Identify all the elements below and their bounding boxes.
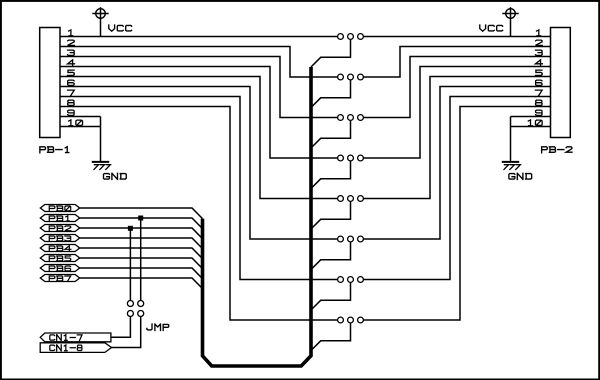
wire PB-2 pins 9-10 ground drop xyxy=(510,117,512,162)
PB-2 pin 1 number xyxy=(537,30,541,36)
wire PB-1 pin 9 xyxy=(60,116,101,118)
jumper J3 pin A xyxy=(338,115,344,121)
power symbol VCC left xyxy=(96,9,106,19)
jumper J1 pin common xyxy=(348,34,354,40)
PB-2 pin 10 number xyxy=(528,120,542,126)
jumper J2 pin A xyxy=(338,74,344,80)
jumper JMP pin 4 xyxy=(138,311,144,317)
wire jumper J7 common to bus xyxy=(311,283,351,310)
wire PB-1 pin 5 to jumper J5 pin A xyxy=(60,77,337,199)
jumper J6 pin A xyxy=(338,236,344,242)
wire PB-2 pin 2 to jumper J2 pin B xyxy=(364,47,551,78)
PB-1 pin 5 number xyxy=(68,70,75,75)
connector PB-1 body xyxy=(40,28,60,138)
net label PB7 text xyxy=(49,276,70,281)
PB-2 pin 3 number xyxy=(535,50,542,55)
power symbol VCC right xyxy=(506,9,516,19)
wire PB-2 pin 4 to jumper J4 pin B xyxy=(364,67,551,159)
net label PB6 flag xyxy=(40,265,79,272)
jumper JMP pin 2 xyxy=(138,301,144,307)
wire PB3 to bus xyxy=(80,238,203,249)
PB-2 pin 7 number xyxy=(535,90,542,96)
jumper J6 pin B xyxy=(358,236,364,242)
label VCC left xyxy=(109,25,132,31)
wire PB-1 pin 7 to jumper J7 pin A xyxy=(60,97,337,280)
PB-1 pin 7 number xyxy=(68,90,75,96)
PB-2 pin 4 number xyxy=(535,60,542,66)
wire jumper J8 common to bus xyxy=(311,323,351,350)
PB-2 pin 5 number xyxy=(535,70,542,75)
net label PB0 text xyxy=(49,206,70,211)
wire jumper J5 common to bus xyxy=(311,202,351,229)
PB-1 pin 9 number xyxy=(68,110,74,115)
net label PB6 text xyxy=(49,266,70,271)
PB-1 pin 10 number xyxy=(69,120,83,126)
wire PB-2 pin 8 to jumper J8 pin B xyxy=(364,107,551,321)
wire jumper J1 common to bus xyxy=(311,40,351,67)
junction dot on PB1 xyxy=(138,216,143,221)
net label PB0 flag xyxy=(40,205,79,212)
wire jumper J6 common to bus xyxy=(311,242,351,269)
wire PB-2 pin 1 to jumper J1 pin B xyxy=(364,36,551,38)
label GND right xyxy=(509,173,532,179)
label PB-1 xyxy=(40,147,69,153)
net label PB5 flag xyxy=(40,255,79,262)
wire PB-1 pin 2 to jumper J2 pin A xyxy=(60,47,337,78)
wire PB6 to bus xyxy=(80,268,203,279)
label GND left xyxy=(104,173,127,179)
wire PB0 to bus xyxy=(80,208,203,219)
net label PB1 flag xyxy=(40,215,79,222)
net label CN1-8 text xyxy=(50,345,82,351)
wire PB1 to bus xyxy=(80,218,203,229)
net label PB3 text xyxy=(49,236,70,241)
wire PB2 to bus xyxy=(80,228,203,239)
jumper J3 pin common xyxy=(348,115,354,121)
wire JMP pin 3 to CN1-7 xyxy=(111,317,130,338)
jumper JMP pin 3 xyxy=(127,311,133,317)
wire jumper J3 common to bus xyxy=(311,121,351,148)
net label CN1-8 flag xyxy=(40,343,111,353)
PB-1 pin 2 number xyxy=(68,40,75,45)
net label CN1-7 flag xyxy=(40,333,111,342)
jumper J2 pin B xyxy=(358,74,364,80)
jumper J7 pin A xyxy=(338,277,344,283)
jumper J5 pin common xyxy=(348,196,354,202)
connector PB-2 body xyxy=(551,28,571,138)
net label PB7 flag xyxy=(40,275,79,282)
PB-2 pin 2 number xyxy=(535,40,542,45)
jumper J8 pin B xyxy=(358,317,364,323)
net label PB4 flag xyxy=(40,245,79,252)
ground symbol left xyxy=(92,161,109,163)
wire PB-1 pins 9-10 ground drop xyxy=(100,117,102,162)
net label PB3 flag xyxy=(40,235,79,242)
jumper J5 pin A xyxy=(338,196,344,202)
jumper J1 pin A xyxy=(338,34,344,40)
wire jumper J4 common to bus xyxy=(311,161,351,188)
net label PB5 text xyxy=(49,256,70,261)
junction dot on PB2 xyxy=(128,226,133,231)
PB-2 pin 6 number xyxy=(536,80,542,85)
wire PB-2 pin 10 xyxy=(511,126,551,128)
jumper J3 pin B xyxy=(358,115,364,121)
jumper J8 pin A xyxy=(338,317,344,323)
PB-1 pin 1 number xyxy=(69,30,73,36)
wire PB4 to bus xyxy=(80,248,203,259)
wire PB-2 pin 7 to jumper J7 pin B xyxy=(364,97,551,280)
jumper J8 pin common xyxy=(348,317,354,323)
net label PB4 text xyxy=(49,246,71,251)
label PB-2 xyxy=(542,147,572,153)
PB-2 pin 9 number xyxy=(536,110,542,115)
label VCC right xyxy=(480,25,503,31)
net label PB2 flag xyxy=(40,225,79,232)
net label PB2 text xyxy=(49,226,71,231)
PB-2 pin 8 number xyxy=(536,100,542,105)
jumper J4 pin A xyxy=(338,155,344,161)
wire VCC right to pin 1 xyxy=(510,18,512,36)
wire PB5 to bus xyxy=(80,258,203,269)
jumper J5 pin B xyxy=(358,196,364,202)
wire PB-1 pin 10 xyxy=(60,126,101,128)
wire VCC left to pin 1 xyxy=(100,18,102,36)
wire PB-1 pin 6 to jumper J6 pin A xyxy=(60,87,337,240)
net label CN1-7 text xyxy=(50,335,82,341)
PB-1 pin 8 number xyxy=(68,100,74,105)
wire PB-2 pin 5 to jumper J5 pin B xyxy=(364,77,551,199)
ground symbol right xyxy=(502,161,519,163)
wire PB-1 pin 8 to jumper J8 pin A xyxy=(60,107,337,321)
jumper J7 pin B xyxy=(358,277,364,283)
label JMP xyxy=(147,324,169,330)
wire JMP pin 4 to CN1-8 xyxy=(112,317,141,348)
wire JMP left drop from PB2 xyxy=(129,228,131,300)
wire PB-1 pin 4 to jumper J4 pin A xyxy=(60,67,337,159)
PB-1 pin 6 number xyxy=(68,80,74,85)
jumper JMP pin 1 xyxy=(127,301,133,307)
wire PB-2 pin 9 xyxy=(511,116,551,118)
wire jumper J2 common to bus xyxy=(311,80,351,107)
jumper J4 pin common xyxy=(348,155,354,161)
wire JMP right drop from PB1 xyxy=(140,218,142,300)
wire PB-1 pin 3 to jumper J3 pin A xyxy=(60,57,337,118)
PB-1 pin 3 number xyxy=(68,50,75,55)
wire PB-2 pin 3 to jumper J3 pin B xyxy=(364,57,551,118)
wire PB-2 pin 6 to jumper J6 pin B xyxy=(364,87,551,240)
jumper J7 pin common xyxy=(348,277,354,283)
wire PB-1 pin 1 to jumper J1 pin A xyxy=(60,36,337,38)
jumper J2 pin common xyxy=(348,74,354,80)
jumper J6 pin common xyxy=(348,236,354,242)
bus PB0-PB7 (thick) xyxy=(203,67,312,366)
wire PB7 to bus xyxy=(80,278,203,289)
jumper J1 pin B xyxy=(358,34,364,40)
PB-1 pin 4 number xyxy=(68,60,75,66)
jumper J4 pin B xyxy=(358,155,364,161)
net label PB1 text xyxy=(49,216,69,221)
